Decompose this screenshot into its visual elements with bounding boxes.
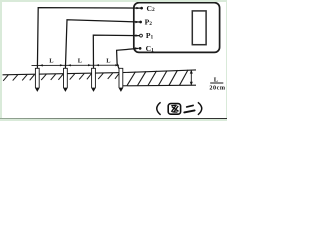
soil band top line: [122, 70, 196, 73]
terminal C2 dot: [140, 7, 143, 10]
svg-text:L: L: [214, 76, 219, 83]
dim arrow at E4: [115, 64, 119, 66]
dim arrow left of E3: [88, 64, 92, 66]
soil band hatching: [127, 70, 188, 86]
dim arrow left of E2: [60, 64, 64, 66]
instrument box U1 (earth resistance tester): [134, 3, 220, 53]
dim arrow right of E3: [96, 64, 100, 66]
svg-text:C2: C2: [147, 4, 155, 13]
svg-text:L: L: [106, 57, 110, 64]
svg-text:20cm: 20cm: [209, 84, 225, 91]
dim arrow at E1: [39, 64, 43, 66]
electrode E2: [64, 68, 68, 91]
soil band bottom line: [123, 84, 196, 87]
caption right parenthesis: [198, 102, 202, 115]
arrowhead C1: [135, 47, 139, 49]
caption character TU (figure): [168, 104, 180, 115]
arrowhead C2: [136, 7, 140, 9]
electrode E4: [119, 68, 123, 91]
wire C1: [117, 48, 139, 68]
electrode E1: [35, 68, 39, 91]
wire P2: [65, 20, 139, 69]
dimension line for electrode spacing: [32, 64, 120, 66]
arrowhead P2: [135, 21, 139, 23]
dim arrow right of E2: [67, 64, 71, 66]
terminal P1 dot (open): [140, 34, 143, 37]
ground hatching (left section): [3, 73, 119, 81]
meter window: [192, 11, 206, 45]
caption left parenthesis: [157, 102, 161, 115]
wire C2: [37, 8, 141, 69]
svg-text:P1: P1: [146, 31, 154, 40]
svg-text:L: L: [49, 58, 53, 65]
electrode E3: [92, 68, 96, 91]
ground surface line: [3, 73, 123, 75]
svg-text:P2: P2: [145, 18, 153, 27]
arrowhead P1: [135, 34, 139, 36]
terminal C1 dot: [139, 47, 142, 50]
fraction bar: [210, 82, 223, 84]
depth dimension arrow: [190, 71, 192, 85]
caption character ER (two): [184, 105, 194, 112]
svg-text:C1: C1: [146, 44, 154, 53]
terminal P2 dot: [139, 21, 142, 24]
svg-text:L: L: [78, 58, 82, 65]
wire P1: [93, 35, 139, 69]
